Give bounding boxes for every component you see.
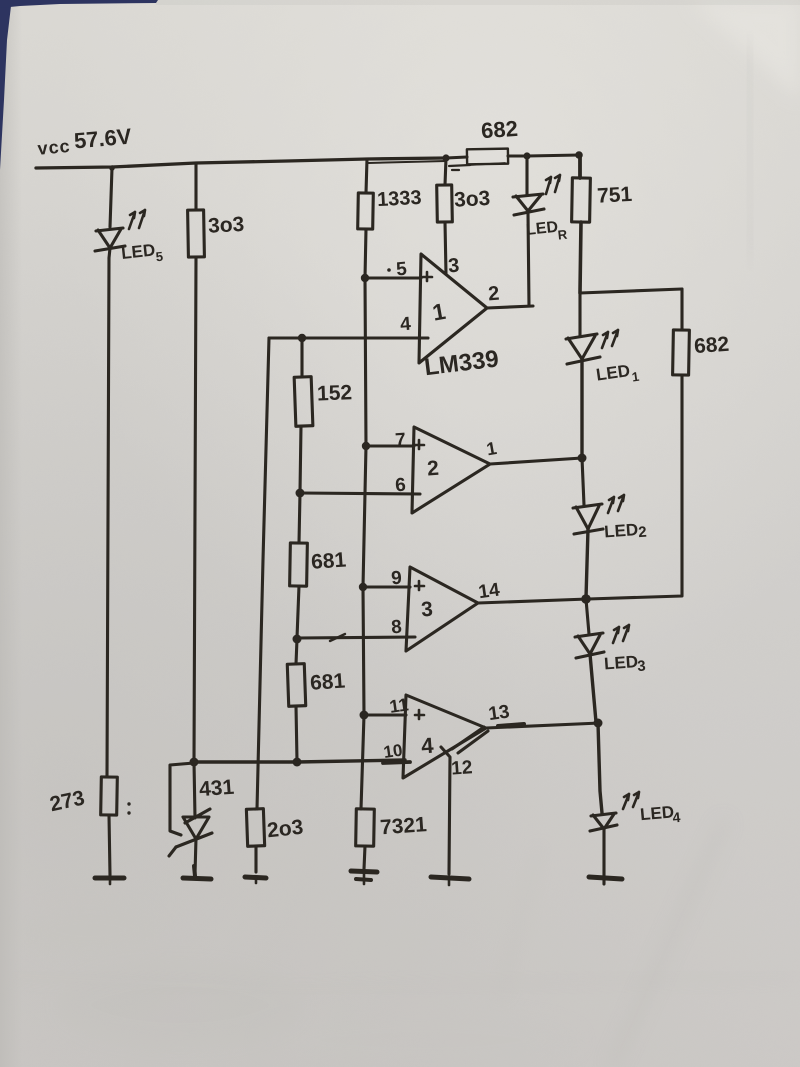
pin6 wire (300, 493, 420, 494)
wire corner to 682b branch (580, 289, 682, 293)
ground (431) (183, 866, 211, 879)
node: bus pin7 (362, 442, 370, 450)
op-amp U1D (comparator 4) (403, 695, 486, 778)
node: bus pin9 (359, 583, 367, 591)
wire LEDR to op1 output (528, 213, 529, 306)
op-amp U1C (comparator 3) (406, 567, 478, 651)
svg-text:LED: LED (120, 240, 156, 262)
pin4 wire (269, 336, 428, 339)
svg-text:2: 2 (487, 283, 500, 306)
op1 plus sign (423, 272, 432, 281)
wire 751 branch top (578, 155, 582, 178)
LED LED2 (573, 504, 603, 534)
resistor 1333 (358, 193, 374, 229)
wire 681b to pin10 line (296, 706, 297, 761)
svg-text:10: 10 (382, 741, 403, 762)
label LED5 (120, 240, 164, 268)
node: divider bottom / pin10 line (293, 758, 302, 767)
TL431 (431) symbol (169, 809, 212, 856)
node: divider tap pin8 (293, 635, 302, 644)
svg-text:681: 681 (310, 548, 347, 573)
wire 681a to node8 (297, 586, 299, 638)
resistor 152 (294, 377, 313, 427)
op-amp U1B (comparator 2) (412, 427, 490, 513)
svg-text:LED: LED (604, 520, 639, 541)
resistor 203 (246, 809, 264, 847)
wire node to LED2 (582, 458, 584, 505)
svg-text:3o3: 3o3 (453, 187, 490, 212)
svg-text:7: 7 (395, 430, 407, 452)
node: 431 / pin10 line (190, 758, 199, 767)
resistor 303 (upper mid) (437, 185, 453, 222)
svg-text:431: 431 (198, 776, 235, 801)
LED1 emission arrows (602, 330, 618, 348)
node: op4 output corner (594, 719, 603, 728)
pin11 wire (364, 713, 406, 716)
op2 output wire (490, 458, 582, 464)
wire LED2 to node14 (586, 529, 588, 598)
label LED3 (603, 652, 646, 678)
svg-text:57.6V: 57.6V (73, 124, 133, 154)
LEDR emission arrows (546, 175, 560, 194)
op-amp U1A (comparator 1) (419, 254, 487, 363)
wire 682b down and bottom horizontal (588, 375, 682, 599)
resistor 682 (right) (673, 289, 690, 375)
pin8 wire (297, 637, 415, 638)
node: op3 output / LED column / 682b (581, 594, 591, 604)
svg-text:751: 751 (596, 183, 633, 208)
svg-text:1333: 1333 (377, 187, 423, 211)
wire bus pin5 to pin7 (365, 278, 366, 446)
svg-text:vcc: vcc (37, 136, 72, 159)
op2 plus sign (415, 440, 424, 449)
op4 output wire (486, 723, 600, 728)
ground (203) (245, 877, 266, 878)
wire 1333 to pin5 node (365, 229, 366, 278)
svg-text:682: 682 (480, 116, 518, 144)
schematic ink (36, 116, 730, 885)
op3 output wire (478, 599, 588, 603)
resistor 681 (upper) (290, 543, 308, 586)
LED LED3 (575, 633, 604, 658)
svg-text:2: 2 (426, 457, 439, 481)
label LED1 (595, 360, 640, 390)
ground (7321) (351, 871, 377, 884)
LED LED1 (566, 334, 600, 364)
svg-text:12: 12 (451, 757, 474, 779)
op1 output wire (487, 306, 533, 308)
node: rail / LED5 branch (109, 165, 115, 171)
wire bus pin9 to pin11 (363, 587, 364, 715)
node: bus pin5 (361, 274, 369, 282)
wire 1333 branch top (366, 159, 367, 193)
op3 plus sign (415, 581, 424, 590)
wire LED1 to node pin1 out (580, 359, 583, 458)
wire node to 152 (300, 338, 303, 377)
svg-text:2o3: 2o3 (266, 816, 304, 843)
LED LEDR (513, 194, 544, 215)
wire 431 to ground (195, 838, 196, 874)
wire node to 431 cathode (194, 762, 195, 818)
svg-text:14: 14 (477, 579, 501, 603)
LED5 emission arrows (129, 210, 145, 229)
resistor 7321 (356, 809, 375, 846)
wire node14 to LED3 (586, 599, 589, 634)
wire divider-left column (pin4 corner down to 203) (257, 338, 269, 809)
svg-text:4: 4 (400, 314, 412, 336)
svg-text:9: 9 (391, 568, 403, 590)
node: op2 output / LED column (578, 454, 587, 463)
LED LED5 (95, 228, 125, 258)
node: divider top / pin4 line (298, 334, 306, 342)
svg-text:8: 8 (391, 617, 403, 639)
node: divider tap pin6 (296, 489, 305, 498)
ground (LED5/273 branch) (95, 876, 124, 881)
wire LED5 to 273 (107, 258, 109, 777)
pin7 wire (366, 444, 414, 447)
svg-text:LED: LED (525, 219, 559, 239)
wire 303a down to 431 node (194, 257, 196, 761)
resistor 681 (lower) (287, 664, 305, 707)
resistor 303 (left) (188, 210, 205, 257)
wire bus pin7 to pin9 (363, 446, 366, 587)
ground (LED4) (589, 877, 622, 879)
op4 plus sign (415, 710, 424, 719)
pin12 wire (441, 747, 450, 874)
svg-text:11: 11 (388, 694, 410, 716)
label LED4 (639, 802, 681, 828)
wire 303b branch top (445, 158, 446, 185)
svg-text:LED: LED (603, 652, 638, 673)
resistor 273 (101, 777, 118, 815)
pin10 wire (long reference line) (194, 760, 405, 762)
node: rail end / 751 branch (575, 151, 583, 159)
TL431 bracket wire (170, 763, 194, 835)
svg-text:13: 13 (487, 701, 511, 725)
wire 751 to corner (580, 222, 581, 293)
wire LED4 to ground (602, 829, 605, 884)
wire 303a branch top (194, 163, 197, 210)
svg-text:LED: LED (639, 802, 675, 824)
wire corner to LED1 (578, 293, 581, 336)
svg-text:2: 2 (638, 524, 648, 542)
node: rail / LEDR branch (523, 152, 530, 159)
label LED2 (604, 520, 648, 544)
svg-text:152: 152 (317, 381, 353, 405)
LED4 emission arrows (623, 792, 639, 809)
node: rail / 303b branch (442, 154, 449, 161)
wire node8 to 681b (296, 639, 297, 664)
resistor 751 (572, 178, 591, 222)
wire 303b to op1 pin3 (445, 222, 446, 274)
wire LEDR branch top (525, 156, 528, 194)
wire corner to LED4 (598, 723, 602, 813)
svg-text:3o3: 3o3 (207, 213, 244, 238)
pin5 wire (365, 276, 421, 279)
wire bus pin11 to 7321 (361, 715, 364, 809)
resistor 682 (top, horizontal) (446, 149, 508, 170)
svg-text:7321: 7321 (379, 813, 428, 839)
svg-text:3: 3 (637, 658, 647, 676)
svg-text:4: 4 (672, 809, 681, 826)
wire 152 to node6 (300, 426, 301, 492)
wire LED5 branch top (110, 168, 112, 227)
svg-text:3: 3 (420, 598, 433, 622)
svg-text:6: 6 (395, 475, 407, 497)
blue table edge (top-left wedge and top strip) (0, 0, 158, 170)
pin9 wire (363, 585, 410, 588)
wire LED3 to op4 output corner (590, 654, 596, 722)
svg-text:681: 681 (309, 669, 346, 694)
LED2 emission arrows (608, 495, 624, 513)
op4 hysteresis slashes (452, 727, 488, 753)
wire 273 to ground (109, 815, 110, 875)
label Vcc 57.6V (36, 124, 133, 159)
stray colon mark (127, 802, 130, 814)
svg-text:682: 682 (693, 333, 730, 358)
power rail Vcc wire (36, 158, 446, 168)
wire 7321 to ground (364, 846, 365, 869)
label pin 5 (387, 259, 408, 281)
node: bus pin11 (360, 711, 369, 720)
label LED R (525, 218, 568, 246)
wire node6 to 681a (299, 493, 300, 543)
LED3 emission arrows (613, 625, 629, 643)
svg-text:3: 3 (447, 255, 460, 278)
wire 203 to ground (254, 846, 257, 872)
LED LED4 (590, 813, 617, 831)
ground (pin12) (431, 877, 469, 879)
